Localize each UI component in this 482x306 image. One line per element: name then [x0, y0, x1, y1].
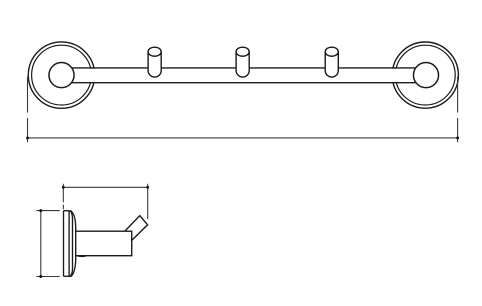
- vdim top dot: [39, 209, 42, 212]
- peg 1 body: [148, 52, 161, 77]
- arm-bell fillet: [77, 255, 87, 258]
- plate left edge: [63, 211, 65, 277]
- bar top line: [63, 67, 424, 69]
- left dim end dot: [26, 136, 29, 139]
- peg 3 top ellipse: [325, 47, 338, 56]
- right extension line: [147, 184, 149, 219]
- hdim left dot: [62, 186, 65, 189]
- plate top edge: [64, 210, 72, 212]
- left mount boss circle: [49, 63, 74, 88]
- bar body mask: [72, 69, 414, 82]
- bottom tick line: [36, 276, 59, 278]
- vdim bottom dot: [39, 275, 42, 278]
- peg 3 body: [325, 52, 338, 77]
- plate right edge: [68, 211, 70, 277]
- peg 2 top ellipse: [236, 47, 249, 56]
- left extension line: [27, 77, 29, 143]
- plate bottom edge: [64, 275, 72, 277]
- right mount outer circle: [392, 42, 458, 108]
- dimension line: [28, 137, 458, 139]
- vertical dimension line: [40, 211, 42, 277]
- bar bottom line: [63, 82, 424, 84]
- wall plate: [64, 211, 76, 277]
- right mount ring circle: [395, 45, 455, 105]
- left mount outer circle: [28, 42, 94, 108]
- peg 1 top ellipse: [148, 47, 161, 56]
- peg 2 body: [236, 52, 249, 77]
- bell outer profile: [71, 211, 76, 276]
- left mount ring circle: [32, 45, 92, 105]
- horizontal dimension line: [63, 186, 147, 188]
- right extension line: [457, 77, 459, 143]
- top tick line: [36, 210, 59, 212]
- hook arm: [76, 231, 132, 256]
- hdim right dot: [146, 186, 149, 189]
- side view dimensions: [36, 184, 147, 277]
- right dim end dot: [456, 136, 459, 139]
- top view dimension: [28, 77, 458, 143]
- bell inner profile: [70, 211, 73, 276]
- angled hook tip: [125, 216, 148, 241]
- right mount boss circle: [413, 63, 438, 88]
- left extension line: [62, 184, 64, 210]
